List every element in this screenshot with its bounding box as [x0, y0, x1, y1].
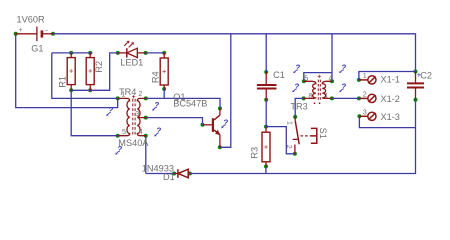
- node R2 top: [88, 51, 92, 55]
- node X1-1: [357, 78, 361, 82]
- svg-text:C2: C2: [420, 71, 432, 81]
- svg-text:8: 8: [308, 91, 312, 100]
- wire TR4 pin4 riser to bottom rail: [145, 136, 147, 174]
- connector X1-1: [359, 76, 376, 84]
- diode D1: [174, 169, 190, 178]
- svg-text:X1-1: X1-1: [381, 75, 400, 85]
- svg-text:G1: G1: [31, 43, 43, 53]
- capacitor C1: [257, 72, 277, 100]
- net flag TR3 pin4: [339, 63, 346, 73]
- wire X1-1 to C2 top: [359, 72, 416, 80]
- wire bottom rail right of D1 to C2: [190, 100, 416, 174]
- node D1 left: [172, 172, 176, 176]
- svg-text:1: 1: [363, 71, 367, 80]
- wire R3 bottom riser: [265, 166, 267, 173]
- svg-text:R4: R4: [150, 71, 160, 83]
- node R4 bottom: [162, 87, 166, 91]
- svg-text:S1: S1: [318, 128, 328, 139]
- wire R4 bottom riser: [163, 89, 165, 98]
- svg-text:R3: R3: [249, 147, 259, 159]
- node R2 bottom: [88, 88, 92, 92]
- node C2 bottom: [414, 98, 418, 102]
- battery G1: [16, 27, 53, 42]
- node battery right: [51, 32, 55, 36]
- node Q1 collector: [218, 106, 222, 110]
- svg-text:R2: R2: [94, 61, 104, 73]
- node C2 top: [414, 70, 418, 74]
- wire emitter riser to top rail: [220, 34, 231, 148]
- resistor R4: [160, 53, 168, 89]
- wire C1 riser from top rail: [265, 34, 267, 72]
- node TR4 pin4: [144, 134, 148, 138]
- node R1 bottom: [69, 88, 73, 92]
- svg-text:1V60R: 1V60R: [17, 14, 45, 24]
- node X1-3: [357, 114, 361, 118]
- svg-text:5: 5: [304, 73, 308, 82]
- wire C1 bottom to R3 top: [265, 100, 267, 127]
- LED LED1: [118, 41, 146, 58]
- svg-text:X1-3: X1-3: [381, 112, 400, 122]
- node Q1 emitter: [218, 145, 222, 149]
- net flag TR3 pin1: [339, 83, 346, 93]
- svg-text:TR3: TR3: [290, 102, 307, 112]
- svg-text:1: 1: [324, 91, 328, 100]
- net flag TR3 pin5: [293, 64, 300, 74]
- capacitor C2: [407, 72, 424, 100]
- node LED left: [116, 51, 120, 55]
- wire TR3 pin8 to S1 pin1: [295, 98, 303, 117]
- wire TR3 pin1 to X1-2: [332, 97, 359, 99]
- svg-text:LED1: LED1: [120, 57, 143, 67]
- node R3 bottom: [264, 164, 268, 168]
- node TR4 pin2: [144, 96, 148, 100]
- node TR3 pin4: [330, 79, 334, 83]
- wire battery+ left riser: [16, 34, 118, 108]
- wire TR3 pin5 over to pin4 riser: [304, 73, 332, 82]
- net flag Q1: [221, 118, 228, 128]
- resistor R2: [86, 53, 94, 90]
- svg-text:4: 4: [139, 127, 143, 136]
- node X1-2: [357, 96, 361, 100]
- resistor R1: [67, 53, 75, 90]
- wire LED anode to R4 top: [146, 52, 165, 54]
- resistor R3: [262, 127, 270, 167]
- wire LED cathode drop to R bottom rail: [71, 53, 118, 90]
- svg-text:5: 5: [122, 127, 126, 136]
- wire bottom rail left of D1: [146, 173, 174, 175]
- node S1 pin1: [293, 115, 297, 119]
- net flag TR3 pin8: [292, 83, 299, 93]
- svg-text:D1: D1: [163, 172, 175, 182]
- node C1 top: [264, 70, 268, 74]
- node TR3 pin5: [302, 79, 306, 83]
- wire TR4 pin2 to Q1 collector: [146, 98, 220, 108]
- switch S1: [293, 117, 317, 154]
- svg-text:1: 1: [121, 90, 125, 99]
- svg-text:2: 2: [138, 89, 142, 98]
- transistor Q1: [203, 108, 221, 147]
- node TR4 pin1: [116, 96, 120, 100]
- node LED right: [144, 51, 148, 55]
- svg-text:1: 1: [286, 121, 295, 125]
- node TR4 pin5: [116, 134, 120, 138]
- svg-text:+: +: [19, 27, 23, 34]
- svg-text:3: 3: [363, 108, 367, 117]
- net flag TR4 left: [106, 106, 113, 116]
- svg-text:MS40A: MS40A: [118, 138, 149, 148]
- connector X1-2: [359, 94, 376, 102]
- node battery left: [14, 32, 18, 36]
- svg-text:2: 2: [363, 90, 367, 99]
- node Q1 base: [201, 123, 205, 127]
- node R3 top: [264, 125, 268, 129]
- svg-text:-: -: [45, 25, 48, 34]
- wire R1 R2 top row: [52, 52, 93, 54]
- node C1 bottom: [264, 98, 268, 102]
- transformer TR3: [304, 75, 332, 104]
- transformer TR4: [118, 95, 146, 136]
- wire TR3 pin4 riser from top rail: [331, 34, 333, 82]
- wire R3 top to S1 pin2: [266, 127, 295, 154]
- net flag TR4 pin5: [115, 145, 122, 155]
- wire R1 bottom riser to TR4 pin5: [71, 90, 118, 135]
- wire top rail battery-: [53, 34, 416, 72]
- wire TR4 pin3 to Q1 base: [146, 118, 203, 125]
- node TR3 pin1: [330, 96, 334, 100]
- node S1 pin2: [293, 152, 297, 156]
- net flag TR4 pin2: [152, 101, 159, 111]
- node D1 right: [188, 172, 192, 176]
- svg-text:R1: R1: [58, 76, 68, 88]
- node R4 top: [162, 51, 166, 55]
- connector X1-3: [359, 112, 376, 120]
- wire X1-3 to C2 riser: [359, 116, 415, 127]
- svg-text:X1-2: X1-2: [381, 94, 400, 104]
- node TR4 pin3: [144, 116, 148, 120]
- net flag TR4 pin3: [154, 127, 161, 137]
- svg-text:3: 3: [135, 109, 139, 118]
- wire R1R2 left rail to TR4 pin1: [52, 53, 118, 99]
- node R1 top: [69, 51, 73, 55]
- svg-text:BC547B: BC547B: [173, 99, 207, 109]
- node TR3 pin8: [302, 96, 306, 100]
- svg-text:4: 4: [329, 73, 333, 82]
- svg-text:2: 2: [285, 145, 294, 149]
- svg-text:C1: C1: [273, 70, 285, 80]
